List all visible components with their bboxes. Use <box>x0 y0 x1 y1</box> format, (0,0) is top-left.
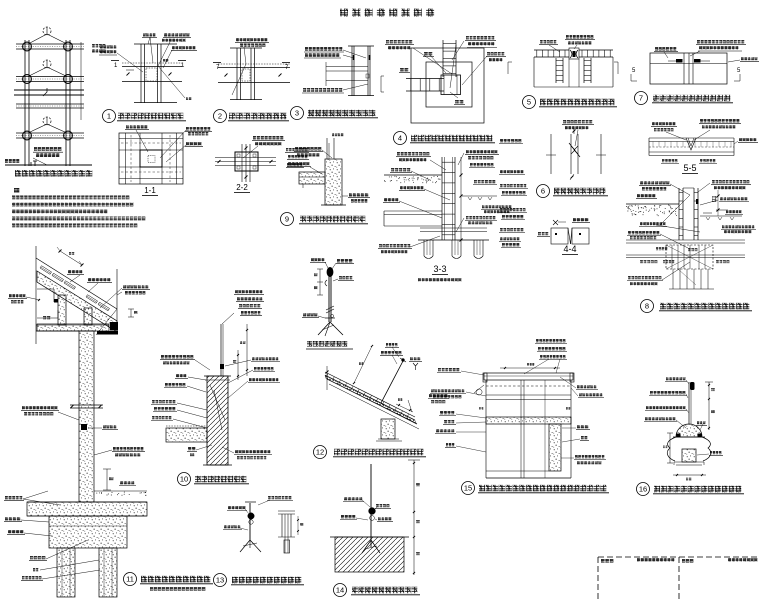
svg-text:5: 5 <box>632 68 636 74</box>
labels 16 <box>666 377 669 380</box>
caption 8 <box>641 300 654 313</box>
speckled leg 2 <box>84 308 92 325</box>
parapet hatched wall <box>207 376 228 465</box>
svg-text:6: 6 <box>541 187 545 196</box>
right labels eave <box>123 285 126 288</box>
caption 6 <box>537 185 550 198</box>
wall base line 10 <box>203 464 232 466</box>
footing dashed box 8 <box>666 245 713 269</box>
dome cap 16 <box>676 424 702 437</box>
dims 14 right <box>413 460 415 575</box>
right dim line 3-3 <box>460 157 462 240</box>
conductor plates 7 <box>676 59 683 63</box>
labels 7 <box>655 47 658 51</box>
rod 16 <box>688 382 690 424</box>
dim right 16 <box>708 382 710 430</box>
gutter black box <box>110 322 118 331</box>
caption 2 <box>214 110 227 123</box>
air terminal ball <box>327 267 334 277</box>
general notes text block <box>12 188 145 227</box>
mast 12 <box>381 361 403 403</box>
section 5-5: joint cover band <box>649 119 758 174</box>
side T marks 6 <box>546 154 556 156</box>
middle beam with break <box>14 89 84 91</box>
svg-text:7: 7 <box>216 65 220 71</box>
hatched base 14 <box>335 537 404 572</box>
slab inner line <box>302 184 304 188</box>
leader 6 <box>575 130 578 146</box>
labels 9 <box>295 147 298 151</box>
corner dashes 2-2 <box>237 154 240 157</box>
slab bottom lines <box>27 515 147 517</box>
elevation column left <box>24 40 26 166</box>
caption 14 <box>334 584 347 597</box>
rung ticks 5-5 <box>652 142 654 148</box>
svg-text:5: 5 <box>737 68 741 74</box>
svg-text:15: 15 <box>464 484 472 493</box>
leaders 9 <box>322 150 332 158</box>
strap 6 <box>571 146 575 154</box>
grounding label <box>34 147 37 151</box>
rebar dots 3 <box>353 55 355 60</box>
roof note right <box>92 44 95 48</box>
T ground symbol <box>30 162 32 166</box>
rod 14 <box>370 464 372 547</box>
labels 15 left stack <box>438 368 441 371</box>
labels 2-2 <box>253 136 256 140</box>
left vertical edge <box>35 246 37 344</box>
detail 15: parapet waterproofing + down-lead elevation <box>430 339 609 495</box>
roof lower dim <box>396 404 413 412</box>
note line 2 <box>12 203 15 207</box>
labels 1-1 <box>126 125 129 129</box>
leaders rod <box>325 262 328 268</box>
top wall band with rebar rungs <box>534 49 613 51</box>
detail 10: parapet surface-mounted conductor <box>151 290 280 486</box>
right ground 8 <box>700 215 742 217</box>
leaders 10 left <box>195 360 210 370</box>
labels 8 mid-left <box>640 222 643 225</box>
svg-text:4-4: 4-4 <box>563 244 576 254</box>
labels 8 mid-right <box>722 225 725 228</box>
lower walls <box>533 57 535 87</box>
speckled leg 1 <box>58 295 66 325</box>
coupling tick <box>325 317 335 319</box>
cross mark 4-4 <box>553 220 558 225</box>
coping cap 10 <box>204 375 231 377</box>
wall lines 15 <box>486 394 571 396</box>
svg-text:10: 10 <box>180 475 188 484</box>
left label 4-4 <box>538 232 541 235</box>
svg-text:5-5: 5-5 <box>683 163 696 173</box>
break marks mast <box>326 306 334 310</box>
down-lead welding figure (mast) <box>302 258 354 349</box>
detail 5: foundation expansion joint earthing (plan) <box>508 35 618 109</box>
labels 14 <box>344 497 347 500</box>
leaders bottom 11 <box>46 540 88 559</box>
batten ticks on roof <box>326 374 328 378</box>
dim top 15 <box>500 367 560 369</box>
left edge arrow 12 <box>326 366 328 390</box>
leader 15 top <box>524 359 549 374</box>
weld arc <box>325 280 327 286</box>
note line 1 <box>12 196 15 200</box>
black anchor on leg1 <box>54 299 58 303</box>
mast <box>328 268 330 322</box>
dim bottom 16 <box>673 474 706 476</box>
channel figure 13 <box>278 510 295 512</box>
note line 3 <box>12 210 15 214</box>
left bracket <box>380 76 382 92</box>
walls 6 <box>550 134 552 174</box>
caption 9 <box>281 213 294 226</box>
beam arrows <box>127 73 130 76</box>
leaders 15 left <box>461 371 484 375</box>
svg-text:2-2: 2-2 <box>236 183 248 192</box>
right small dim <box>130 309 132 317</box>
right pad 8 <box>703 212 712 214</box>
svg-text:1: 1 <box>114 63 118 69</box>
caption 15 <box>462 482 475 495</box>
svg-text:1-1: 1-1 <box>144 186 156 195</box>
mast dim bracket <box>319 269 321 295</box>
section 2-2 plan of joint <box>215 136 285 193</box>
labels 8 top-left <box>640 181 643 184</box>
parapet outline 7 <box>650 53 727 84</box>
speckled column 15 <box>549 424 561 471</box>
dashed column core <box>146 68 157 81</box>
detail 4: foundation rebar as earthing electrode (plan) <box>381 36 506 145</box>
roof slab left 10 <box>166 425 207 427</box>
svg-text:1: 1 <box>181 63 185 69</box>
skirt right <box>702 437 711 461</box>
right edge line <box>80 42 82 120</box>
leaders detail 2 <box>244 47 246 64</box>
detail 7: parapet expansion joint (plan) <box>631 40 759 105</box>
leaders 5-5 <box>666 132 686 140</box>
main roof slope line <box>36 258 117 309</box>
labels 13 left <box>228 506 231 509</box>
detail 16: ridge tile conductor support <box>637 377 745 496</box>
caption 7 <box>635 92 648 105</box>
right vertical line <box>116 269 118 322</box>
svg-text:16: 16 <box>639 485 647 494</box>
ground line <box>5 164 92 166</box>
rod anchor black <box>220 364 224 369</box>
svg-text:11: 11 <box>126 575 134 584</box>
slab 9 <box>299 172 325 184</box>
soffit step outline <box>37 288 54 290</box>
svg-text:1: 1 <box>107 112 111 121</box>
label 25 left <box>43 316 46 319</box>
labels right of footing <box>466 216 469 219</box>
small labels right of 2-2 <box>285 148 309 167</box>
pier base 9 <box>321 204 346 206</box>
svg-text:3-3: 3-3 <box>433 264 446 274</box>
labels 10 mid-left rows <box>152 400 155 403</box>
tilted battens <box>40 266 52 275</box>
labels 8 top-right <box>712 180 715 183</box>
bottom cap 2 <box>230 99 262 101</box>
slab lines 8 <box>626 239 745 241</box>
column lines 3 <box>351 46 353 96</box>
bottom small labels 5-5 <box>662 159 665 162</box>
labels 10 top stack <box>235 290 238 293</box>
inner footing square <box>426 62 472 107</box>
legs 14 <box>362 540 371 553</box>
leaders 1-1 <box>136 130 148 152</box>
clamp dot 13 <box>248 513 254 519</box>
labels right of section 3-3 <box>499 139 528 248</box>
under-eave slope <box>96 309 117 335</box>
labels 15 right <box>577 385 580 388</box>
gutter lip <box>97 331 118 335</box>
svg-text:14: 14 <box>336 586 344 595</box>
base top line <box>330 536 409 538</box>
leaders 14 <box>362 500 370 507</box>
svg-text:8: 8 <box>645 302 649 311</box>
labels rod <box>311 258 314 261</box>
detail 12: sloped roof eave conductor support <box>314 343 450 459</box>
title block (bottom-right, dashed) <box>598 557 760 599</box>
section 3-3: foundation with piles <box>378 150 513 282</box>
right wall labels <box>113 447 116 450</box>
leaders 10 right <box>225 360 251 366</box>
svg-text:12: 12 <box>316 448 324 457</box>
detail 2: frame joint (top storey) <box>213 38 290 123</box>
side marks 5 <box>507 62 509 74</box>
labels 15 top stack <box>536 339 539 342</box>
leaders 4 <box>413 48 452 74</box>
leaders 15 right <box>560 377 576 388</box>
mast dim 12 <box>354 346 372 383</box>
joint gap 7 <box>683 53 685 84</box>
caption 10 <box>178 473 191 486</box>
support rod 10 <box>220 324 222 376</box>
column rebar cage (vertical ladder) <box>442 40 444 77</box>
svg-text:13: 13 <box>216 576 224 585</box>
labels 3 <box>305 47 308 51</box>
base line 15 <box>486 477 571 479</box>
svg-text:3: 3 <box>295 109 299 118</box>
leaders 16 <box>686 380 689 384</box>
title block texts <box>601 559 605 563</box>
caption 12 <box>314 446 327 459</box>
dim 13 right <box>297 516 299 535</box>
roof parallel lines <box>325 372 415 417</box>
center joint box <box>441 75 461 95</box>
legs 13 <box>240 540 250 552</box>
elevation column right <box>65 40 67 166</box>
caps 3 <box>348 45 374 47</box>
dim line 8 <box>717 190 719 216</box>
dashed core 2 <box>242 69 250 81</box>
caption 13 <box>214 574 227 587</box>
wall black anchor box <box>81 424 87 430</box>
post figure 13 <box>249 503 251 540</box>
leader to AC mark <box>158 66 185 98</box>
left dim marks 15 <box>476 389 482 395</box>
labels 12 right <box>429 394 432 397</box>
leaders 3-3 <box>430 160 446 170</box>
bottom small labels 10 <box>188 447 191 450</box>
dim left bracket 16 <box>669 433 671 463</box>
detail 11: large eave / wall / brick footing section <box>4 246 213 597</box>
bottom arrow 6 <box>570 174 574 180</box>
labels 5-5 <box>652 122 655 125</box>
svg-text:9: 9 <box>285 215 289 224</box>
multi-storey frame elevation (left) <box>5 27 105 177</box>
slab band 15 <box>486 417 571 424</box>
piles 3-3 <box>423 240 425 256</box>
leaders 13 <box>245 509 249 514</box>
elevation caption <box>15 170 21 177</box>
slab grid 1-1 <box>119 133 183 184</box>
piles 11 <box>57 548 75 597</box>
leaders 3 <box>343 50 366 58</box>
svg-text:5: 5 <box>527 98 531 107</box>
support wall 12 <box>381 419 395 439</box>
concrete pier 9 <box>325 159 342 205</box>
right vertical inner <box>544 380 546 478</box>
note line 5 <box>12 224 15 228</box>
svg-text:4: 4 <box>398 134 402 143</box>
rod black anchor 16 <box>690 382 695 390</box>
footing block <box>49 516 127 548</box>
small top label 9 <box>332 133 334 136</box>
mast top tick <box>400 358 406 362</box>
leader 10 top <box>222 313 234 324</box>
slope labels <box>68 270 71 273</box>
exterior ground line <box>94 490 147 492</box>
top cap <box>134 43 177 45</box>
ceiling inner ledge <box>37 317 58 319</box>
labels 5 <box>540 40 543 44</box>
Y symbol <box>413 363 418 370</box>
dome ears <box>677 434 681 438</box>
outer footing square <box>411 48 484 123</box>
beam lines <box>122 62 182 64</box>
cross columns 2-2 <box>241 144 243 182</box>
detail 1: frame joint (middle storey) <box>99 33 197 123</box>
sheet title: lightning protection grounding general details <box>340 9 348 17</box>
beam lines 2 <box>218 63 290 65</box>
triangle connections <box>28 34 47 44</box>
skirt left <box>667 437 676 461</box>
footing verticals 8 <box>671 245 673 269</box>
frame 15 <box>485 380 487 478</box>
labels 3-3 bottom left <box>379 244 382 247</box>
leaders 10 mid-left <box>177 403 207 410</box>
caption 5 <box>523 96 536 109</box>
note line 4 <box>12 217 15 221</box>
bottom labels 11 <box>30 556 33 559</box>
footing X 8 <box>666 245 713 269</box>
detail 9: water tank overflow pipe earthing <box>281 133 371 226</box>
leaders 5 <box>549 45 560 52</box>
left wall labels <box>22 406 25 410</box>
mid vertical 15 <box>520 380 522 478</box>
ceiling band <box>36 324 109 326</box>
caption 16 <box>637 483 650 496</box>
grid dashes <box>121 142 181 144</box>
column square 2-2 <box>235 152 258 171</box>
slab top <box>27 501 147 503</box>
svg-text:7: 7 <box>639 94 643 103</box>
exterior ground label <box>120 481 123 484</box>
rebar dots 4-4 <box>555 233 557 235</box>
coping end caps 15 <box>483 373 487 382</box>
beam rebar cage (horizontal ladder) <box>406 78 444 80</box>
labels 4 <box>386 40 389 44</box>
floor slabs <box>16 43 84 45</box>
anchor label <box>103 425 106 428</box>
labels 3-3 left <box>397 152 400 156</box>
left ground label <box>637 194 640 197</box>
pile x 8 <box>678 269 696 285</box>
ceiling speckle band <box>37 324 109 331</box>
section 4-4: embedded plates with weld <box>537 218 590 255</box>
x marks 15 <box>479 407 481 410</box>
beam 3 <box>326 66 368 68</box>
leaders 7 <box>664 52 668 58</box>
left ground line 3-3 <box>384 174 442 176</box>
detail 6: earthing strap across expansion joint <box>537 120 609 198</box>
V weld 4-4 <box>568 228 571 244</box>
detail 8: manual bored pile rebar as earthing <box>626 180 756 313</box>
labels 8 bottom <box>628 276 631 279</box>
column square 1-1 <box>140 150 162 167</box>
labels detail 2 <box>236 38 239 42</box>
roof dim line <box>60 251 82 265</box>
detail 14: roof conductor rod on flat roof <box>330 460 420 597</box>
detail 3: column rebar as down conductor <box>291 46 379 120</box>
lower slab line <box>16 103 84 105</box>
leaders left slab <box>23 499 60 505</box>
end ticks 2-2 <box>218 160 221 163</box>
dashed borders <box>598 556 760 558</box>
soil dots 3-3 <box>430 176 433 179</box>
leader lines detail 1 <box>117 53 143 72</box>
leader 2-2 <box>243 146 258 158</box>
wall floor tick <box>70 404 103 406</box>
columns of joint 2 <box>236 48 238 100</box>
piles 8 <box>672 269 674 289</box>
junction circles <box>23 42 32 51</box>
labels 10 right <box>252 357 255 360</box>
roof tile speckle band <box>325 376 416 424</box>
left slab 3-3 <box>384 210 442 212</box>
rebar dot 8 <box>696 199 699 204</box>
roof conductor symbols (dashed circles) <box>43 27 51 35</box>
caption 4 <box>394 132 407 145</box>
blocks 4-4 <box>551 228 568 244</box>
caption 3 <box>291 107 304 120</box>
left slab labels <box>5 496 8 499</box>
label top right 13 <box>268 496 271 499</box>
rod figure caption <box>307 341 312 347</box>
inner leaders 10 <box>210 385 225 420</box>
V notch 5-5 <box>686 138 696 150</box>
leaders 12 <box>392 347 399 357</box>
band lines 5-5 <box>649 137 734 139</box>
top cap 2 <box>230 47 262 49</box>
wall rebar cage 3-3 <box>441 157 443 240</box>
dashed conductor 15 <box>486 385 571 387</box>
rod clamp ball 14 <box>369 508 376 515</box>
left ground 8 <box>626 203 679 205</box>
labels 10 left <box>161 355 164 358</box>
